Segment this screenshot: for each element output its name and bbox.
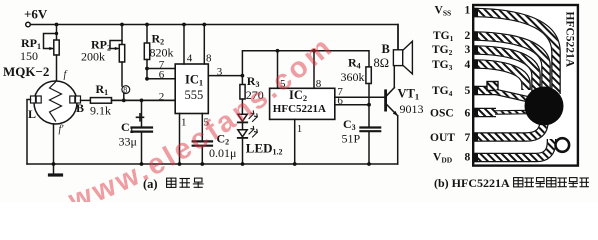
watermark www.elecfans.com <box>73 26 362 210</box>
svg-text:+6V: +6V <box>24 7 48 22</box>
svg-text:TG3: TG3 <box>432 59 453 72</box>
svg-text:C1: C1 <box>121 120 134 135</box>
node R2 top <box>145 23 149 27</box>
svg-text:TG4: TG4 <box>432 85 453 98</box>
svg-text:9013: 9013 <box>400 102 424 116</box>
svg-text:3: 3 <box>217 66 223 78</box>
node R1/pin2 junction <box>122 99 126 103</box>
wire pin7 <box>147 68 175 70</box>
transistor VT1 9013 <box>386 66 424 164</box>
caption (a) <box>143 177 203 191</box>
wire pin3 <box>208 75 242 77</box>
package outline <box>473 5 578 166</box>
svg-text:f′: f′ <box>59 124 65 135</box>
svg-text:3: 3 <box>465 44 471 56</box>
LED1 <box>238 111 257 130</box>
svg-text:VT1: VT1 <box>398 87 420 102</box>
pin 8 trace <box>474 139 552 158</box>
svg-text:8Ω: 8Ω <box>374 56 390 70</box>
wire IC2 pin1 <box>294 119 296 164</box>
svg-text:R2: R2 <box>152 32 165 47</box>
svg-text:7: 7 <box>465 132 471 144</box>
wire pin1 to rail <box>179 114 181 165</box>
svg-text:VDD: VDD <box>433 152 453 165</box>
potentiometer RP1 <box>20 25 59 82</box>
op-amp IC1 555 timer <box>175 64 208 114</box>
svg-text:33μ: 33μ <box>119 135 137 149</box>
node C1 tap <box>140 99 144 103</box>
wire L electrode to ground rail <box>27 100 31 165</box>
node label B circle <box>122 86 130 94</box>
svg-text:R4: R4 <box>348 56 361 71</box>
capacitor C3 51P <box>342 117 381 166</box>
wire bottom rail <box>27 163 398 165</box>
capacitor C2 0.01u <box>193 132 237 166</box>
svg-text:8: 8 <box>123 86 127 95</box>
wire pin2 <box>112 99 176 101</box>
svg-text:C3: C3 <box>343 117 356 132</box>
svg-text:L: L <box>28 107 36 121</box>
svg-text:HFC5221A: HFC5221A <box>273 103 326 115</box>
wire IC2 pin6 <box>335 104 369 106</box>
svg-text:2: 2 <box>159 91 165 103</box>
svg-text:200k: 200k <box>81 50 105 64</box>
wire IC2 pin7 to VT1 base <box>335 96 385 98</box>
LED2 <box>238 126 283 166</box>
svg-text:OUT: OUT <box>430 132 455 144</box>
wire top rail <box>30 25 398 50</box>
svg-text:8: 8 <box>465 152 471 164</box>
pin 6 trace <box>474 108 496 118</box>
wire pin6 <box>147 78 175 80</box>
svg-text:150: 150 <box>20 49 38 63</box>
resistor R2 820k <box>144 25 173 81</box>
wire IC2 pin5 <box>277 51 279 89</box>
svg-text:360k: 360k <box>341 70 365 84</box>
node pin4 top <box>182 23 186 27</box>
chip blob <box>525 87 564 126</box>
pin 2 trace <box>474 36 546 96</box>
node RP1 top <box>55 23 59 27</box>
wire pin8 <box>203 25 205 65</box>
svg-text:8: 8 <box>206 53 212 65</box>
svg-text:B: B <box>382 42 390 56</box>
svg-text:6: 6 <box>337 95 343 107</box>
gas sensor MQK-2 <box>3 64 84 135</box>
index hole O <box>556 138 570 152</box>
svg-text:(b) HFC5221A: (b) HFC5221A <box>434 176 510 190</box>
potentiometer RP2 <box>81 25 125 64</box>
pin 1 trace <box>474 13 556 95</box>
svg-text:555: 555 <box>185 88 204 102</box>
svg-text:TG1: TG1 <box>433 30 454 43</box>
caption (b) <box>434 176 589 190</box>
node RP2 top <box>120 23 124 27</box>
svg-text:LED1.2: LED1.2 <box>246 141 283 157</box>
svg-text:TG2: TG2 <box>432 44 453 57</box>
wire f' to ground <box>53 124 55 175</box>
svg-text:6: 6 <box>159 69 165 81</box>
svg-text:1: 1 <box>465 5 471 17</box>
svg-text:8: 8 <box>316 78 322 90</box>
pin stubs at package edge <box>473 8 478 162</box>
svg-text:820k: 820k <box>150 46 174 60</box>
pin 3 trace <box>474 50 536 92</box>
svg-text:4: 4 <box>465 59 471 71</box>
svg-text:1: 1 <box>297 123 303 135</box>
node pin8 top <box>202 23 206 27</box>
supply terminal circle <box>26 22 31 27</box>
pin 5 trace bump <box>487 82 527 100</box>
pin labels <box>430 5 471 165</box>
svg-text:2: 2 <box>465 30 471 42</box>
pin 4 trace <box>474 64 526 90</box>
svg-text:MQK−2: MQK−2 <box>3 64 49 79</box>
pin 5 trace <box>474 86 497 96</box>
wire RP2 to node B <box>122 62 124 100</box>
IC2 HFC5221A <box>270 88 335 119</box>
svg-text:1: 1 <box>181 117 187 129</box>
node f' rail <box>52 162 56 166</box>
resistor R3 270 <box>240 74 264 114</box>
svg-text:OSC: OSC <box>430 108 454 120</box>
svg-text:4: 4 <box>187 53 193 65</box>
svg-text:B: B <box>76 101 84 115</box>
resistor R1 9.1k <box>81 82 176 118</box>
wire pin4 <box>183 25 185 65</box>
wire IC2 pin8 <box>313 51 315 89</box>
speaker B 8ohm <box>374 25 413 74</box>
pin 7 trace <box>474 121 544 137</box>
resistor R4 360k <box>341 56 372 127</box>
svg-text:R1: R1 <box>96 82 109 97</box>
svg-text:VSS: VSS <box>435 5 452 18</box>
wire pin5 <box>201 114 203 141</box>
wire 555 out to bus <box>242 51 369 76</box>
svg-text:9.1k: 9.1k <box>90 104 111 118</box>
pin 6 trace tail <box>495 110 530 115</box>
svg-text:HFC5221A: HFC5221A <box>564 12 576 68</box>
capacitor C1 33u <box>119 100 153 166</box>
svg-text:5: 5 <box>465 85 471 97</box>
svg-text:51P: 51P <box>342 132 361 146</box>
svg-text:f: f <box>64 70 68 81</box>
ground <box>50 173 62 176</box>
svg-text:6: 6 <box>465 108 471 120</box>
